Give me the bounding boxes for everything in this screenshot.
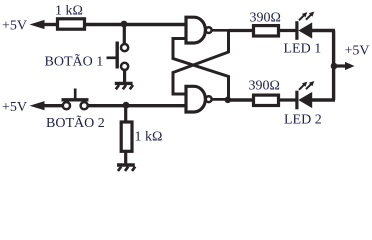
LED1 triangle (298, 22, 312, 38)
LED2 cathode bar (295, 91, 298, 110)
pushbutton S2 actuator bar (62, 98, 89, 101)
pushbutton S1 contact top (121, 44, 128, 51)
arrow to +5V right (345, 62, 355, 70)
wire feedback A: U1A output to U1B input (upper) (173, 31, 229, 95)
wire LED1 to +5V rail (312, 29, 335, 32)
wire R1 to U1A input A (85, 23, 187, 26)
wire U1B bubble to node Q̅ (212, 98, 228, 101)
LED1 light arrow 1 (299, 12, 307, 20)
junction node RESET (123, 102, 130, 109)
wire junction to S1 (123, 25, 126, 45)
junction node SET (121, 21, 128, 28)
svg-text:LED 2: LED 2 (284, 113, 322, 128)
junction node Q̅ (225, 97, 232, 104)
svg-text:+5V: +5V (2, 18, 27, 33)
wire arrow to R1 (42, 23, 58, 26)
U1B output bubble (206, 96, 212, 102)
pushbutton S2 actuator stub (74, 89, 77, 99)
wire S2 to U1B input B (88, 104, 186, 107)
pushbutton S2 contact right (81, 102, 88, 109)
pushbutton S1 actuator stub (107, 56, 117, 59)
pushbutton S2 contact left (63, 102, 70, 109)
svg-text:BOTÃO 2: BOTÃO 2 (46, 115, 105, 131)
wire feedback B: U1B output to U1A input (lower) (173, 39, 229, 101)
resistor R2 (121, 122, 132, 151)
wire R2 to ground (124, 153, 127, 165)
ground (S1) (115, 83, 133, 89)
LED1 light arrow 2 (306, 12, 314, 20)
arrow to +5V bottom-left (30, 101, 45, 110)
wire S1 to ground (123, 70, 126, 83)
svg-text:1 kΩ: 1 kΩ (135, 130, 163, 145)
wire R3 to LED1 (279, 29, 298, 32)
svg-text:390Ω: 390Ω (249, 79, 280, 94)
svg-text:1 kΩ: 1 kΩ (55, 3, 83, 18)
svg-text:BOTÃO 1: BOTÃO 1 (45, 53, 104, 69)
wire R4 to LED2 (279, 98, 298, 101)
wire arrow to S2 (42, 104, 63, 107)
wire junction to R2 (124, 106, 127, 122)
wire LED2 to +5V rail (312, 98, 335, 101)
resistor R1 (58, 19, 85, 29)
svg-text:390Ω: 390Ω (250, 10, 281, 25)
wire node Q̅ to R4 (228, 98, 254, 101)
ground (R2) (117, 165, 135, 171)
LED1 cathode bar (295, 21, 298, 40)
svg-text:LED 1: LED 1 (284, 41, 322, 56)
resistor R3 (254, 26, 279, 36)
wire node Q to R3 (229, 29, 255, 32)
pushbutton S1 actuator bar (115, 42, 118, 69)
U1A output bubble (206, 27, 212, 33)
wire U1A bubble to node Q (212, 29, 229, 32)
nand gate U1A (186, 17, 205, 43)
pushbutton S1 contact bottom (121, 63, 128, 70)
svg-text:+5V: +5V (2, 100, 27, 115)
junction node +5V rail (331, 63, 338, 70)
LED2 light arrow 2 (306, 81, 314, 89)
arrow to +5V top-left (30, 20, 45, 29)
wire rail to +5V arrow (334, 64, 346, 67)
LED2 triangle (298, 92, 312, 108)
wire +5V rail (right vertical) (332, 31, 335, 101)
nand gate U1B (186, 86, 205, 112)
svg-text:+5V: +5V (345, 44, 370, 59)
LED2 light arrow 1 (299, 82, 307, 90)
resistor R4 (254, 95, 279, 105)
